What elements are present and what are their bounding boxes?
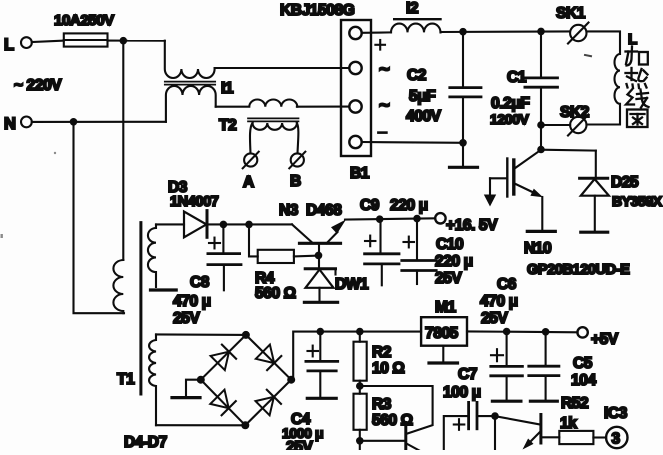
svg-text:10 Ω: 10 Ω: [372, 360, 404, 377]
svg-text:25V: 25V: [173, 310, 200, 327]
wire L-junction down to T1 primary: [122, 41, 124, 260]
wire L to fuse: [32, 41, 64, 42]
label 线: [626, 90, 649, 108]
resistor R4 560ohm: [249, 224, 319, 302]
svg-text:I2: I2: [406, 0, 418, 17]
svg-text:B: B: [290, 173, 301, 190]
svg-text:N: N: [4, 115, 16, 133]
svg-text:R52: R52: [561, 395, 588, 412]
wire N line: [32, 121, 166, 123]
choke I1: [165, 41, 234, 122]
svg-text:3: 3: [612, 431, 621, 448]
node C2 bottom: [459, 139, 467, 147]
bridge D4-D7 frame: [124, 335, 291, 451]
wire B1 plus to I2: [362, 31, 391, 33]
capacitor C5 104: [529, 332, 597, 401]
terminal +16.5V: [435, 213, 498, 234]
svg-text:~ 220V: ~ 220V: [14, 77, 62, 94]
IC3 pin 3: [604, 405, 628, 448]
svg-text:25V: 25V: [286, 439, 313, 450]
fuse 10A250V: [54, 12, 114, 47]
svg-text:1k: 1k: [560, 415, 577, 432]
wire I1 to B1 upper ~: [215, 67, 349, 69]
wire fuse to I1: [108, 40, 165, 42]
wire C7 node down: [494, 416, 496, 450]
diode D3 1N4007: [168, 179, 219, 237]
transistor Q2: [523, 415, 560, 450]
node bridge left: [197, 376, 205, 384]
bridge rectifier B1 KBJ1508G: [280, 2, 390, 182]
wire emitter rail to +16.5V: [345, 218, 435, 219]
diode D7 bottom-right: [256, 390, 282, 416]
svg-text:+16. 5V: +16. 5V: [446, 217, 498, 234]
svg-text:C10: C10: [436, 236, 463, 253]
label 加: [626, 47, 648, 66]
terminal A: [243, 152, 259, 191]
svg-text:I1: I1: [221, 80, 234, 97]
svg-text:0.2μF: 0.2μF: [491, 95, 530, 112]
node C9: [376, 215, 384, 223]
svg-text:C9: C9: [360, 197, 380, 214]
diode D5 top-right: [256, 345, 281, 371]
terminal N: [4, 115, 32, 133]
terminal +5V: [577, 327, 618, 348]
diode D4 top-left: [211, 345, 237, 371]
diode D25 BY359X: [580, 151, 663, 233]
node C2 top: [459, 28, 467, 36]
regulator M1 7805: [421, 299, 467, 363]
svg-text:560 Ω: 560 Ω: [255, 285, 296, 302]
capacitor C10: [402, 219, 473, 287]
wire sec2 bottom to bridge bottom: [156, 424, 245, 426]
inductor I2: [391, 0, 441, 32]
capacitor C1: [490, 31, 558, 127]
wire 7805 out to +5V: [467, 330, 578, 333]
svg-text:470 μ: 470 μ: [173, 293, 211, 310]
svg-text:D25: D25: [611, 174, 639, 191]
ground below T1 secondary 1: [151, 288, 177, 291]
svg-text:C2: C2: [407, 67, 426, 84]
heating coil L: [587, 31, 638, 125]
svg-text:220 μ: 220 μ: [435, 253, 473, 270]
IGBT N10: [484, 150, 630, 278]
svg-text:D468: D468: [306, 202, 342, 219]
wire C7 node to Q2 base: [495, 416, 540, 424]
node bridge top: [242, 331, 250, 339]
svg-text:220 μ: 220 μ: [390, 197, 428, 214]
svg-text:GP20B120UD-E: GP20B120UD-E: [527, 262, 630, 278]
svg-text:C6: C6: [497, 276, 517, 293]
node R2-R3: [356, 382, 364, 390]
svg-text:M1: M1: [435, 299, 457, 316]
switch SK1: [556, 5, 589, 44]
node C1 top: [537, 28, 545, 36]
label 热: [626, 68, 648, 88]
wire T1 sec1 to D3: [156, 223, 184, 225]
node C10: [413, 215, 421, 223]
svg-text:400V: 400V: [406, 108, 442, 125]
svg-text:N10: N10: [524, 240, 551, 257]
node L-junction: [120, 37, 128, 45]
label 圈: [627, 110, 648, 128]
svg-text:C5: C5: [573, 355, 593, 372]
speck: [54, 152, 56, 154]
svg-text:C1: C1: [507, 69, 527, 86]
transformer T1 primary: [113, 260, 135, 388]
terminal B: [289, 152, 305, 190]
resistor R52 1k: [559, 395, 606, 444]
svg-text:T2: T2: [219, 117, 236, 134]
svg-text:+5V: +5V: [591, 331, 619, 348]
terminal L: [4, 36, 32, 54]
svg-text:~: ~: [379, 58, 390, 79]
switch SK2: [560, 104, 589, 136]
node R4 tap: [245, 221, 253, 229]
svg-text:DW1: DW1: [335, 276, 369, 293]
svg-text:100 μ: 100 μ: [443, 384, 481, 401]
node collector: [537, 146, 545, 154]
svg-text:D4-D7: D4-D7: [124, 434, 167, 450]
capacitor C2: [406, 32, 481, 143]
wire T2 to B1 lower ~: [297, 106, 349, 108]
zener DW1: [304, 255, 369, 302]
svg-text:KBJ1508G: KBJ1508G: [280, 2, 355, 19]
wire DC+ rail to SK1: [441, 30, 570, 33]
wire B1 minus to C2 bottom: [363, 141, 464, 144]
wire D3 to N3 base rail: [207, 223, 292, 225]
node N-junction: [70, 118, 78, 126]
svg-text:C8: C8: [190, 274, 210, 291]
svg-text:1200V: 1200V: [490, 111, 530, 127]
svg-text:R2: R2: [372, 344, 391, 361]
node C4: [317, 328, 325, 336]
svg-text:104: 104: [571, 372, 596, 389]
node C8 tap: [220, 221, 228, 229]
svg-text:SK1: SK1: [556, 5, 586, 22]
T1 core: [139, 223, 142, 394]
node C7 right: [491, 412, 499, 420]
wire SK2 to node: [541, 124, 570, 126]
svg-text:25V: 25V: [481, 310, 508, 327]
svg-text:~: ~: [379, 94, 390, 115]
svg-text:L: L: [4, 36, 14, 54]
svg-text:5μF: 5μF: [409, 88, 435, 105]
svg-text:BY359X: BY359X: [612, 193, 663, 209]
node R2 top: [356, 328, 364, 336]
diode D6 bottom-left: [210, 390, 236, 416]
resistor R3 560ohm: [354, 386, 413, 452]
wire sec2 top to bridge top: [156, 333, 246, 336]
capacitor C9: [360, 197, 428, 285]
capacitor C6: [480, 276, 522, 401]
wire N-junction down and right to T1 primary bottom: [74, 122, 125, 313]
wire collector node to D25: [541, 149, 596, 152]
ground at bridge left: [172, 380, 201, 398]
svg-text:B1: B1: [350, 165, 370, 182]
svg-text:C7: C7: [458, 366, 477, 383]
svg-text:R3: R3: [372, 396, 392, 413]
ground below C2: [450, 143, 478, 168]
svg-text:10A250V: 10A250V: [54, 12, 114, 29]
svg-text:SK2: SK2: [560, 104, 589, 121]
transformer T2: [216, 100, 299, 154]
svg-text:25V: 25V: [435, 270, 462, 287]
capacitor C7: [443, 366, 495, 450]
svg-text:A: A: [243, 174, 254, 191]
node bridge right: [287, 376, 295, 384]
transistor N3 D468: [279, 202, 346, 255]
resistor R2 10ohm: [354, 332, 405, 386]
capacitor C8: [173, 224, 241, 327]
svg-text:N3: N3: [279, 202, 299, 219]
T1 secondary winding 2: [149, 334, 156, 425]
wire bridge right up to 5V rail: [291, 332, 421, 380]
wire SK2 node down to collector node: [540, 125, 542, 150]
svg-text:7805: 7805: [425, 325, 459, 342]
T1 secondary winding 1: [148, 224, 156, 287]
node SK2 left: [537, 121, 545, 129]
transistor Q1: [360, 423, 422, 453]
svg-text:IC3: IC3: [604, 405, 628, 422]
svg-text:T1: T1: [117, 371, 135, 388]
wire R2-R3 node to Q1 collector: [360, 386, 433, 434]
node R3 bottom: [356, 437, 364, 445]
node N3 base / R4 / DW1: [315, 252, 323, 260]
node bridge bottom: [241, 421, 249, 429]
svg-text:470 μ: 470 μ: [480, 293, 518, 310]
node C5: [542, 328, 550, 336]
node C6: [503, 328, 511, 336]
svg-text:1N4007: 1N4007: [170, 194, 219, 210]
capacitor C4: [282, 332, 338, 455]
